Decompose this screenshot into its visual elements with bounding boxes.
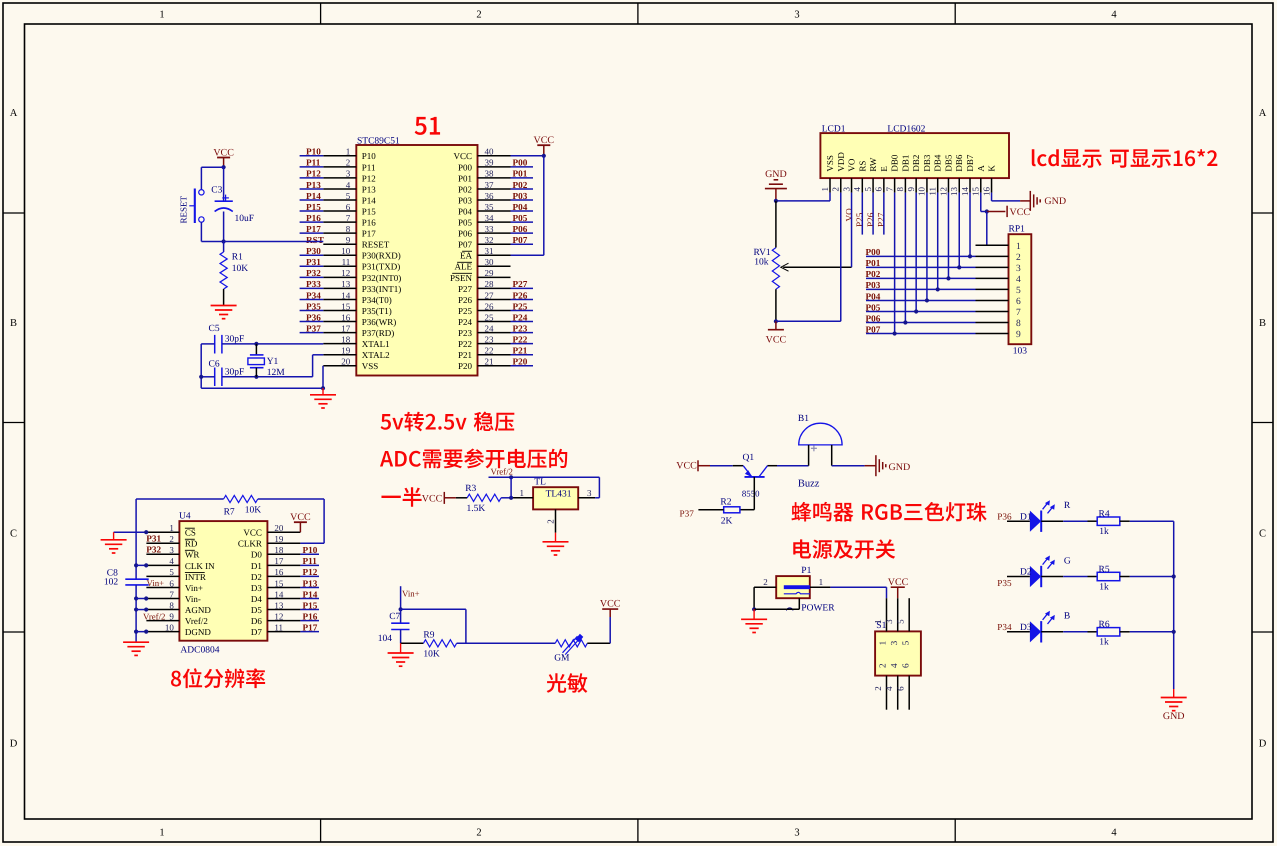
IC TL431 body — [533, 487, 578, 509]
svg-text:P06: P06 — [513, 224, 528, 234]
svg-text:TL: TL — [534, 478, 546, 488]
resistor R1 10K — [223, 242, 225, 253]
junction GND rail — [774, 199, 778, 203]
svg-text:10: 10 — [165, 622, 175, 632]
svg-text:11: 11 — [342, 257, 351, 267]
P1 jack symbol — [784, 585, 810, 589]
wire C6 row to XTAL2 — [222, 376, 313, 378]
transistor Q1 8550 PNP — [745, 476, 765, 478]
junction rail/R5 — [1172, 574, 1176, 578]
svg-text:C: C — [10, 529, 17, 540]
svg-text:5: 5 — [169, 567, 174, 577]
svg-text:3: 3 — [889, 640, 899, 645]
annotation ADC needs half voltage (red) — [380, 449, 567, 469]
svg-text:XTAL1: XTAL1 — [362, 339, 390, 349]
TL431 pin3 — [578, 497, 595, 499]
svg-text:GND: GND — [1044, 196, 1066, 207]
capacitor C5 30pF — [214, 335, 216, 354]
wire LED to R4 — [1041, 520, 1063, 522]
svg-text:3: 3 — [587, 488, 592, 498]
capacitor C6 30pF — [214, 368, 216, 387]
U1 right pins 40-21 — [478, 155, 511, 157]
capacitor C3 10uF — [223, 167, 225, 201]
svg-text:D0: D0 — [251, 550, 262, 560]
wire R9 to GM — [457, 642, 556, 644]
svg-text:P00: P00 — [513, 158, 528, 168]
svg-text:P04: P04 — [458, 206, 473, 216]
U1 right net wires P00-P07 — [511, 166, 534, 168]
svg-text:LCD1602: LCD1602 — [887, 124, 925, 134]
svg-text:P05: P05 — [866, 302, 881, 312]
junction DB3/P04 — [925, 298, 929, 302]
svg-text:10: 10 — [341, 246, 351, 256]
svg-text:6: 6 — [874, 187, 884, 192]
svg-text:P25: P25 — [513, 301, 528, 311]
svg-text:P02: P02 — [866, 269, 881, 279]
svg-text:VSS: VSS — [825, 155, 835, 172]
LED D3 — [1030, 621, 1041, 642]
svg-text:P25: P25 — [855, 212, 865, 227]
junction VCC/C3/RESET — [222, 165, 226, 169]
svg-text:P21: P21 — [458, 350, 472, 360]
svg-text:D7: D7 — [251, 627, 262, 637]
svg-text:C3: C3 — [211, 186, 222, 196]
resistor R7 10K feedback — [136, 498, 224, 500]
svg-text:R3: R3 — [465, 484, 476, 494]
svg-text:12: 12 — [341, 268, 350, 278]
svg-text:D5: D5 — [251, 605, 262, 615]
svg-text:10K: 10K — [232, 264, 249, 274]
svg-text:13: 13 — [274, 600, 284, 610]
wire LED to R6 — [1041, 631, 1063, 633]
svg-text:4: 4 — [884, 686, 894, 691]
svg-text:R1: R1 — [232, 253, 243, 263]
TL431 pin1 — [512, 497, 533, 499]
wire LCD pin 4 stub down — [861, 193, 863, 235]
svg-text:2: 2 — [878, 663, 888, 668]
svg-text:6: 6 — [1016, 297, 1021, 307]
svg-text:22: 22 — [485, 346, 494, 356]
svg-text:P34: P34 — [997, 622, 1012, 632]
wire R3 to TL431 pin1 — [501, 497, 512, 499]
svg-text:19: 19 — [341, 346, 351, 356]
junction Vin+/C7 — [399, 607, 403, 611]
svg-text:Buzz: Buzz — [798, 479, 820, 490]
svg-text:P21: P21 — [513, 346, 528, 356]
svg-text:P32(INT0): P32(INT0) — [362, 273, 402, 283]
junction rail/CLK IN — [134, 563, 138, 567]
IC U4 ADC0804 body — [179, 521, 267, 641]
svg-text:31: 31 — [485, 246, 494, 256]
svg-text:9: 9 — [906, 187, 916, 192]
svg-text:STC89C51: STC89C51 — [357, 137, 400, 147]
wire R7 to CLKR pin19 — [258, 498, 324, 500]
svg-text:P11: P11 — [303, 556, 318, 566]
buzzer leads — [808, 445, 810, 466]
svg-text:2: 2 — [873, 686, 883, 691]
svg-text:13: 13 — [341, 279, 351, 289]
svg-text:P24: P24 — [458, 317, 473, 327]
svg-text:P27: P27 — [513, 279, 528, 289]
svg-text:1: 1 — [169, 523, 174, 533]
svg-text:P26: P26 — [865, 212, 875, 227]
svg-text:11: 11 — [928, 187, 938, 196]
svg-text:35: 35 — [485, 202, 495, 212]
svg-text:16: 16 — [981, 187, 991, 197]
svg-text:Q1: Q1 — [743, 453, 755, 463]
junction rail/Vin- — [134, 596, 138, 600]
svg-text:8: 8 — [1016, 319, 1021, 329]
svg-text:3: 3 — [884, 619, 894, 624]
svg-text:Vref/2: Vref/2 — [143, 612, 165, 622]
svg-text:P02: P02 — [458, 184, 472, 194]
U4 left pins 1-10 — [146, 531, 179, 533]
wire LCD pin15 A to VCC — [980, 193, 982, 212]
svg-text:Vin-: Vin- — [185, 594, 201, 604]
svg-text:VCC: VCC — [453, 151, 472, 161]
U1 right net wires P27-P20 — [511, 287, 534, 289]
wire rail to DGND pin10 — [136, 631, 146, 633]
svg-text:P33: P33 — [306, 279, 321, 289]
svg-text:P12: P12 — [306, 169, 321, 179]
junction crystal/C6 row — [254, 375, 258, 379]
junction P1 ground — [752, 607, 756, 611]
svg-text:P07: P07 — [866, 324, 881, 334]
svg-text:P05: P05 — [513, 213, 528, 223]
svg-text:1k: 1k — [1099, 638, 1109, 648]
wire LCD pin16 K to GND — [991, 193, 993, 201]
wire C7 bottom row — [401, 642, 424, 644]
LED D2 — [1030, 566, 1041, 587]
svg-text:P15: P15 — [362, 206, 377, 216]
wire rail to AGND pin8 — [136, 609, 146, 611]
wire R4 to GND rail — [1130, 520, 1174, 522]
svg-text:P1: P1 — [801, 566, 811, 576]
svg-text:5: 5 — [346, 191, 351, 201]
wire GND to VSS junction — [775, 189, 777, 201]
svg-text:P31(TXD): P31(TXD) — [362, 262, 401, 272]
svg-text:P16: P16 — [303, 611, 318, 621]
svg-text:P14: P14 — [362, 195, 377, 205]
svg-text:Vin+: Vin+ — [402, 589, 420, 599]
svg-text:5: 5 — [1016, 286, 1021, 296]
net label Vref/2 wire — [489, 476, 600, 478]
svg-text:2: 2 — [476, 828, 481, 839]
svg-text:1: 1 — [820, 187, 830, 192]
svg-text:P35(T1): P35(T1) — [362, 306, 392, 316]
svg-text:GND: GND — [1163, 711, 1185, 722]
annotation 5v to 2.5v regulator (red) — [381, 412, 515, 432]
potentiometer RV1 10k — [775, 201, 777, 248]
wire net P04 to RP1 pin 6 — [866, 299, 976, 301]
wire LCD pin2 VDD down to VCC rail — [840, 193, 842, 322]
svg-text:P11: P11 — [362, 162, 376, 172]
resistor R6 1k — [1088, 631, 1098, 633]
svg-text:Vin+: Vin+ — [185, 583, 203, 593]
wire left rail of crystal caps — [201, 343, 215, 345]
power VCC right of LCD (bar style) — [987, 211, 1006, 213]
svg-text:4: 4 — [169, 556, 174, 566]
svg-text:EA: EA — [460, 251, 472, 261]
svg-text:P11: P11 — [306, 158, 321, 168]
svg-text:17: 17 — [341, 323, 351, 333]
wire RV1 bottom to VCC — [775, 289, 777, 321]
svg-text:14: 14 — [960, 187, 970, 197]
IC U1 STC89C51 body — [356, 145, 477, 376]
svg-text:15: 15 — [341, 301, 351, 311]
ground at U4 CS — [101, 539, 127, 541]
P1 pin2 — [754, 586, 776, 588]
LED D1 — [1030, 511, 1041, 532]
wire XTAL1 row — [222, 343, 323, 345]
svg-text:DB4: DB4 — [933, 154, 943, 172]
net label P35 wire — [1007, 576, 1030, 578]
svg-text:102: 102 — [104, 578, 119, 588]
wire GM to VCC — [587, 642, 610, 644]
svg-text:103: 103 — [1013, 347, 1027, 357]
svg-text:1: 1 — [873, 619, 883, 624]
ground main GND under U1 — [322, 388, 324, 394]
svg-text:8: 8 — [346, 224, 351, 234]
RV1 wiper arrow — [783, 266, 851, 268]
svg-text:104: 104 — [378, 634, 393, 644]
svg-text:3: 3 — [794, 10, 799, 21]
connector P1 POWER body — [776, 576, 810, 598]
wire net P03 to RP1 pin 5 — [866, 288, 976, 290]
capacitor C8 102 — [125, 578, 148, 580]
svg-text:C5: C5 — [209, 324, 220, 334]
svg-text:INTR: INTR — [185, 572, 206, 582]
svg-text:10: 10 — [917, 187, 927, 197]
svg-text:P31: P31 — [146, 534, 161, 544]
svg-text:Vref/2: Vref/2 — [185, 616, 208, 626]
svg-text:3: 3 — [169, 545, 174, 555]
svg-text:3: 3 — [346, 169, 351, 179]
resistor R3 1.5K — [456, 497, 467, 499]
ground at U4 DGND rail — [123, 641, 149, 643]
svg-text:P23: P23 — [458, 328, 473, 338]
svg-text:10uF: 10uF — [235, 214, 255, 224]
wire pin40 to VCC — [511, 155, 544, 157]
ground below R1 — [211, 305, 237, 307]
svg-text:LCD1: LCD1 — [822, 124, 846, 134]
svg-text:RESET: RESET — [179, 195, 189, 223]
svg-text:1k: 1k — [1099, 582, 1109, 592]
svg-text:P13: P13 — [303, 578, 318, 588]
svg-text:4: 4 — [346, 180, 351, 190]
svg-text:D1: D1 — [251, 561, 262, 571]
svg-text:34: 34 — [485, 213, 495, 223]
svg-text:P27: P27 — [876, 212, 886, 227]
svg-text:XTAL2: XTAL2 — [362, 350, 390, 360]
wire LCD pin 6 stub down — [883, 193, 885, 235]
svg-text:DB6: DB6 — [954, 154, 964, 172]
svg-text:RS: RS — [857, 161, 867, 172]
junction rail/AGND — [134, 607, 138, 611]
svg-text:P01: P01 — [866, 258, 881, 268]
svg-text:P06: P06 — [866, 313, 881, 323]
svg-text:VSS: VSS — [362, 361, 379, 371]
svg-text:37: 37 — [485, 180, 495, 190]
svg-text:P04: P04 — [866, 291, 881, 301]
svg-text:2: 2 — [1016, 253, 1021, 263]
svg-text:20: 20 — [274, 523, 284, 533]
svg-text:2: 2 — [346, 158, 351, 168]
svg-text:DB3: DB3 — [922, 154, 932, 172]
svg-text:RP1: RP1 — [1009, 224, 1026, 234]
svg-text:5: 5 — [900, 640, 910, 645]
junction R3/pin1/Vref2 — [509, 496, 513, 500]
svg-text:9: 9 — [346, 235, 351, 245]
svg-text:P10: P10 — [303, 545, 318, 555]
svg-text:1k: 1k — [1099, 527, 1109, 537]
power GND at buzzer (bar style) — [865, 465, 876, 467]
svg-text:P10: P10 — [306, 147, 321, 157]
svg-text:27: 27 — [485, 290, 495, 300]
svg-text:6: 6 — [169, 578, 174, 588]
svg-text:VCC: VCC — [1010, 207, 1031, 218]
svg-text:2: 2 — [546, 519, 556, 524]
wire P1 pin1 to S1 pin1 — [830, 586, 886, 588]
wire R2 to P37 — [698, 509, 723, 511]
svg-text:CLK IN: CLK IN — [185, 561, 215, 571]
P1 pin1 — [810, 586, 831, 588]
net label P34 wire — [1007, 631, 1030, 633]
wire net P06 to RP1 pin 8 — [866, 322, 976, 324]
svg-text:D3: D3 — [251, 583, 262, 593]
wire EA pin31 to VCC rail — [511, 254, 544, 256]
svg-text:DB7: DB7 — [965, 154, 975, 172]
svg-text:D1: D1 — [1020, 512, 1032, 522]
switch S1 body — [875, 631, 921, 675]
switch RESET — [199, 190, 204, 195]
svg-text:38: 38 — [485, 169, 495, 179]
svg-text:4: 4 — [1111, 828, 1117, 839]
svg-text:1: 1 — [520, 488, 525, 498]
svg-text:5: 5 — [863, 187, 873, 192]
svg-text:3: 3 — [794, 828, 799, 839]
wire VCC junction down to RP1 pin1 — [986, 212, 988, 246]
wire rail to Vin- pin7 — [136, 598, 146, 600]
svg-text:12: 12 — [274, 611, 283, 621]
svg-text:P17: P17 — [303, 622, 318, 632]
junction Vref/2 — [509, 475, 513, 479]
svg-text:13: 13 — [949, 187, 959, 197]
wire LCD pin 11 DB4 down — [937, 193, 939, 290]
wire LCD pin 9 DB2 down — [915, 193, 917, 312]
wire buzzer to GND — [832, 465, 865, 467]
svg-text:10k: 10k — [754, 257, 769, 267]
svg-text:AGND: AGND — [185, 605, 211, 615]
svg-text:DB5: DB5 — [943, 154, 953, 172]
svg-text:A: A — [10, 108, 18, 119]
junction A/VCC/RP1 — [985, 209, 989, 213]
svg-text:VDD: VDD — [836, 152, 846, 172]
svg-text:P35: P35 — [306, 301, 321, 311]
wire CS pin1 to ground — [114, 531, 147, 533]
wire LCD pin 13 DB6 down — [958, 193, 960, 268]
photoresistor GM — [555, 640, 587, 647]
svg-text:28: 28 — [485, 279, 495, 289]
svg-text:6: 6 — [896, 686, 906, 691]
svg-text:3: 3 — [841, 187, 851, 192]
svg-text:C: C — [1259, 529, 1266, 540]
junction DB7/P00 — [968, 254, 972, 258]
svg-text:VCC: VCC — [422, 493, 443, 504]
svg-text:R4: R4 — [1099, 510, 1110, 520]
svg-text:P17: P17 — [306, 224, 321, 234]
svg-text:TL431: TL431 — [546, 490, 572, 500]
resistor R9 10K — [423, 640, 456, 647]
svg-text:GM: GM — [554, 654, 570, 664]
junction rail/DGND — [134, 630, 138, 634]
svg-text:P15: P15 — [306, 202, 321, 212]
svg-text:16: 16 — [274, 567, 284, 577]
svg-text:11: 11 — [274, 622, 283, 632]
svg-text:R5: R5 — [1099, 565, 1110, 575]
svg-text:B: B — [10, 318, 17, 329]
svg-text:1: 1 — [1016, 242, 1021, 252]
svg-text:Y1: Y1 — [267, 357, 279, 367]
svg-text:P31: P31 — [306, 257, 321, 267]
junction DB5/P02 — [946, 276, 950, 280]
svg-text:P10: P10 — [362, 151, 377, 161]
svg-text:P23: P23 — [513, 323, 528, 333]
junction RV1/VCC/VDD — [774, 319, 778, 323]
wire reset switch to RST junction — [200, 222, 202, 241]
capacitor C7 104 — [400, 609, 402, 623]
resistor R2 2K — [724, 507, 740, 513]
svg-text:4: 4 — [1111, 10, 1117, 21]
wire Vin+ branch right and down to R9 output — [401, 608, 466, 610]
wire LCD pin 10 DB3 down — [926, 193, 928, 301]
svg-text:R6: R6 — [1099, 620, 1110, 630]
junction left rail C6 row — [199, 375, 203, 379]
svg-text:26: 26 — [485, 301, 495, 311]
svg-text:P07: P07 — [458, 240, 473, 250]
svg-text:P36: P36 — [997, 511, 1012, 521]
junction XTAL1/crystal — [254, 342, 258, 346]
svg-text:PSEN: PSEN — [450, 273, 473, 283]
wire LED to R5 — [1041, 576, 1063, 578]
RP1 pins 1-9 — [976, 244, 1009, 246]
junction DB0/P07 — [893, 331, 897, 335]
svg-text:30: 30 — [485, 257, 495, 267]
svg-text:P15: P15 — [303, 600, 318, 610]
svg-text:30pF: 30pF — [225, 335, 245, 345]
svg-text:DB2: DB2 — [911, 155, 921, 172]
svg-text:D2: D2 — [251, 572, 262, 582]
svg-text:12: 12 — [938, 187, 948, 196]
svg-text:VCC: VCC — [243, 528, 262, 538]
svg-text:30pF: 30pF — [225, 368, 245, 378]
U1 left pins 1-20 — [323, 155, 356, 157]
annotation light sensor (red) — [547, 673, 588, 693]
wire LCD pin1 VSS to GND rail — [829, 193, 831, 201]
svg-text:4: 4 — [1016, 275, 1021, 285]
svg-text:A: A — [1259, 108, 1267, 119]
wire LCD pin 12 DB5 down — [947, 193, 949, 279]
svg-text:DB1: DB1 — [900, 155, 910, 172]
svg-text:D3: D3 — [1020, 623, 1032, 633]
svg-text:8: 8 — [169, 600, 174, 610]
wire R5 to GND rail — [1130, 576, 1174, 578]
svg-text:P32: P32 — [146, 545, 161, 555]
svg-text:39: 39 — [485, 158, 495, 168]
annotation 8-bit resolution (red) — [171, 668, 265, 688]
svg-text:4: 4 — [852, 187, 862, 192]
junction RST node — [222, 239, 226, 243]
